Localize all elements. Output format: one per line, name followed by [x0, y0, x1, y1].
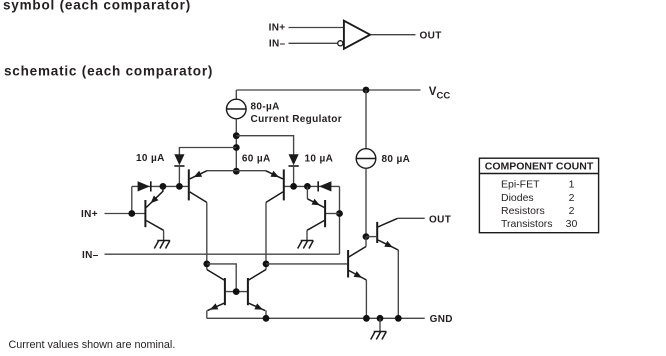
wire Q4 collector to ground	[306, 230, 308, 240]
wire branch to left 10uA diode	[179, 148, 236, 155]
wire rail to current regulator	[235, 90, 237, 99]
junction Q4 base / IN- riser	[336, 210, 343, 217]
svg-text:2: 2	[569, 192, 575, 204]
junction right mirror node	[263, 261, 270, 268]
wire M2 emitter to gnd rail	[265, 310, 267, 318]
junction right diode branch	[233, 132, 240, 139]
svg-text:COMPONENT COUNT: COMPONENT COUNT	[485, 161, 594, 173]
op-amp U1 comparator triangle	[344, 21, 370, 49]
svg-text:IN+: IN+	[81, 209, 98, 220]
diode D1 10uA (left, anode up)	[174, 154, 184, 165]
junction 60uA node	[233, 168, 240, 175]
junction M2 emitter on GND rail	[263, 315, 270, 322]
junction D2 cathode on node wire	[290, 183, 297, 190]
wire GND rail	[207, 317, 425, 319]
transistor Q2 (diff pair pnp, left)	[188, 169, 190, 200]
junction Q5 collector / Q6 base	[363, 233, 370, 240]
svg-text:Current Regulator: Current Regulator	[251, 114, 343, 125]
junction Q6 emitter on GND rail	[395, 315, 402, 322]
transistor Q3 (diff pair pnp, right)	[283, 169, 285, 200]
wire IN- riser	[339, 186, 341, 254]
wire CS2 to output node	[365, 168, 367, 236]
wire Q4 base	[326, 213, 340, 215]
transistor Q4 (input pnp, right)	[324, 200, 326, 227]
svg-text:10 µA: 10 µA	[305, 154, 334, 165]
wire OUT lead	[398, 217, 425, 219]
svg-text:Resistors: Resistors	[501, 205, 545, 217]
svg-text:OUT: OUT	[429, 214, 451, 225]
svg-text:1: 1	[569, 179, 575, 191]
wire D1 cathode to left input node	[178, 166, 180, 186]
svg-text:schematic (each comparator): schematic (each comparator)	[4, 64, 213, 79]
svg-text:symbol (each comparator): symbol (each comparator)	[3, 0, 191, 13]
ground (below Q1)	[157, 240, 170, 242]
wire mirror bases	[226, 291, 247, 293]
wire branch to right 10uA diode	[236, 136, 293, 155]
wire VCC to CS2	[365, 90, 367, 149]
wire IN+ to comparator	[289, 27, 344, 29]
wire left base node (IN+ riser to Q2 base)	[132, 185, 188, 187]
svg-text:2: 2	[569, 205, 575, 217]
current source CS2 80 uA	[356, 149, 376, 169]
junction IN+ / riser	[128, 210, 135, 217]
diode D3 (left clamp, pointing right)	[138, 181, 150, 191]
wire VCC rail	[236, 89, 420, 91]
wire IN- rail	[105, 253, 340, 255]
svg-text:IN–: IN–	[269, 38, 286, 49]
wire 60uA node to Q2 emitter	[207, 170, 236, 172]
svg-text:30: 30	[566, 218, 578, 230]
wire Q5 emitter to gnd rail	[365, 280, 367, 318]
wire Q6 base	[366, 236, 377, 238]
ground (below Q4)	[301, 240, 314, 242]
svg-text:Epi-FET: Epi-FET	[501, 179, 540, 191]
svg-text:IN–: IN–	[82, 250, 99, 261]
wire Q1 collector to ground	[163, 230, 165, 240]
junction Q5 emitter on GND rail	[363, 315, 370, 322]
wire comparator output	[371, 34, 416, 36]
wire Q3 collector riser	[265, 202, 267, 269]
ground (below GND rail)	[374, 331, 387, 333]
svg-text:Diodes: Diodes	[501, 192, 534, 204]
svg-text:60 µA: 60 µA	[242, 154, 271, 165]
junction D1 cathode on node wire	[176, 183, 183, 190]
svg-text:10 µA: 10 µA	[136, 153, 165, 164]
svg-text:GND: GND	[430, 314, 453, 325]
svg-text:Transistors: Transistors	[501, 218, 553, 230]
svg-text:80 µA: 80 µA	[382, 154, 411, 165]
junction ground symbol on GND rail	[377, 315, 384, 322]
svg-text:Current values shown are nomin: Current values shown are nominal.	[9, 339, 176, 351]
wire Q2 collector riser	[206, 202, 208, 269]
svg-text:OUT: OUT	[420, 30, 442, 41]
wire mirror cross-connect	[207, 264, 236, 292]
component count table	[479, 158, 598, 233]
transistor Q6 (output npn)	[376, 222, 378, 243]
junction left mirror node	[203, 261, 210, 268]
wire M1 emitter to gnd rail	[206, 310, 208, 318]
junction Q1 emitter on node wire	[160, 183, 167, 190]
wire right base node (Q3 base to IN- riser)	[284, 185, 340, 187]
wire IN+ riser	[131, 186, 133, 213]
transistor M1 (mirror npn, left)	[224, 278, 226, 305]
inverting input bubble	[338, 41, 343, 46]
junction mirror base node	[233, 288, 240, 295]
wire IN- to inverting bubble	[289, 42, 338, 44]
current source CS1 80-uA current regulator	[227, 99, 247, 119]
transistor M2 (mirror npn, right)	[247, 278, 249, 305]
wire IN+ lead	[105, 213, 145, 215]
transistor Q5 (driver npn)	[347, 250, 349, 278]
diode D4 (right clamp, pointing left)	[319, 181, 331, 191]
wire Q6 emitter to gnd rail	[397, 250, 399, 318]
junction VCC rail / 80uA branch	[363, 87, 370, 94]
transistor Q1 (input pnp, left)	[144, 200, 146, 227]
wire right mirror node to Q5 base	[266, 263, 347, 265]
svg-text:IN+: IN+	[269, 23, 286, 34]
junction left diode branch	[233, 144, 240, 151]
diode D2 10uA (right, anode up)	[289, 154, 299, 165]
wire gnd stub	[379, 318, 381, 331]
wire regulator down to 60uA node	[235, 119, 237, 171]
wire Q5 collector vertical	[365, 237, 367, 247]
svg-text:80-µA: 80-µA	[251, 102, 280, 113]
wire 60uA node to Q3 emitter	[236, 170, 265, 172]
wire D2 cathode to right input node	[293, 166, 295, 186]
wire Q4 emitter vertical	[306, 186, 308, 198]
svg-text:VCC: VCC	[429, 86, 451, 102]
junction Q4 emitter on node wire	[304, 183, 311, 190]
